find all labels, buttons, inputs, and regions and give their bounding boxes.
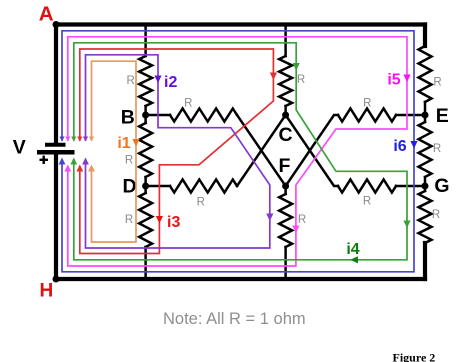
resistor R C-G	[338, 180, 396, 193]
wire resistor C-G to node G	[396, 185, 425, 188]
resistor R A-C	[279, 56, 292, 106]
resistor R B-D	[139, 123, 152, 177]
i3 arrow into battery bottom	[76, 165, 83, 172]
i2 arrow into battery top	[83, 137, 88, 142]
svg-text:R: R	[197, 197, 205, 209]
svg-text:i2: i2	[164, 74, 177, 91]
loop wire i6 (blue) battery-A-E-G-H	[62, 31, 414, 272]
resistor R F-H	[279, 194, 292, 247]
wire left edge A to battery	[54, 25, 58, 143]
loop wire i3 (red) battery-A-C-D-H	[80, 49, 274, 254]
node B junction dot	[142, 112, 149, 119]
wire diagonal node C to resistor C-G	[286, 115, 338, 186]
loop wire i2 (purple) battery-A-B-F-H	[86, 55, 270, 248]
i5 current arrow	[403, 75, 410, 83]
wire right edge top	[423, 25, 427, 47]
svg-text:R: R	[125, 214, 133, 226]
resistor R D-H	[139, 193, 152, 247]
wire resistor to node G	[424, 177, 427, 191]
node G junction dot	[422, 183, 429, 190]
svg-text:R: R	[127, 75, 135, 87]
wire top edge tap to resistor A-C	[284, 25, 287, 57]
i2 arrow into battery bottom	[82, 158, 89, 165]
resistor R E-G	[419, 122, 432, 177]
loop wire i4 (green) battery-A-C-G-H	[74, 43, 407, 260]
i1 current arrow	[132, 139, 139, 147]
wire resistor to node E	[424, 102, 427, 122]
svg-text:R: R	[298, 214, 306, 226]
i3 arrow into battery top	[77, 137, 82, 142]
svg-text:A: A	[39, 2, 54, 25]
i4 arrow beside resistor G-H	[403, 221, 410, 229]
wire node B to resistor B-F	[146, 114, 170, 117]
i3 arrow beside resistor A-C	[270, 73, 277, 81]
i2 current arrow	[154, 76, 161, 84]
resistor R D-C	[170, 180, 237, 193]
svg-text:R: R	[297, 74, 305, 86]
wire resistor to node D	[144, 177, 147, 186]
node H junction dot	[53, 276, 60, 283]
wire resistor F-E to node E	[396, 114, 425, 117]
wire resistor to node B	[144, 106, 147, 115]
svg-text:i6: i6	[393, 138, 406, 155]
wire node F to resistor F-H	[284, 186, 287, 194]
svg-text:D: D	[122, 176, 136, 198]
wire resistor F-H to bottom edge	[284, 247, 287, 279]
wire resistor D-H to bottom edge	[144, 247, 147, 279]
i1 arrow into battery top	[89, 137, 94, 142]
wire right edge bottom	[423, 243, 427, 279]
svg-text:R: R	[125, 155, 133, 167]
node E junction dot	[422, 112, 429, 119]
i4 arrow into battery bottom	[70, 158, 77, 165]
svg-text:R: R	[433, 77, 441, 89]
node D junction dot	[142, 183, 149, 190]
svg-text:H: H	[40, 280, 54, 301]
battery plus sign	[40, 156, 49, 164]
wire bottom edge H to G-corner	[56, 277, 425, 281]
wire resistor to node C	[284, 106, 287, 115]
svg-text:R: R	[184, 97, 192, 109]
svg-text:Figure 2: Figure 2	[393, 351, 436, 362]
i3 current arrow	[156, 216, 163, 224]
wire node B to resistor B-D	[144, 115, 147, 123]
wire diagonal resistor D-C to node C	[237, 115, 286, 186]
wire top edge A to E-corner	[56, 22, 425, 26]
svg-text:B: B	[121, 106, 135, 128]
i6 current arrow	[410, 141, 417, 149]
resistor R A-E	[419, 46, 432, 102]
i5 arrow into battery top	[65, 137, 70, 142]
wire diagonal resistor B-F to node F	[237, 115, 286, 186]
svg-text:R: R	[363, 98, 371, 110]
svg-text:C: C	[278, 124, 292, 146]
battery V bottom plate	[37, 150, 75, 155]
svg-text:i4: i4	[346, 241, 359, 258]
i2 arrow beside resistor F-H	[266, 214, 273, 222]
loop wire i5 (magenta) battery-A-E-F-H	[68, 37, 407, 266]
battery V top plate	[45, 143, 66, 147]
svg-text:i5: i5	[387, 72, 400, 89]
wire diagonal node F to resistor F-E	[286, 115, 338, 186]
i1 arrow into battery bottom	[88, 165, 95, 172]
loop wire i1 (orange) battery-A-B-D-H	[92, 61, 137, 242]
svg-text:i1: i1	[117, 135, 130, 152]
wire node D to resistor D-H	[144, 186, 147, 193]
i6 arrow into battery bottom	[59, 158, 66, 165]
wire battery to H	[54, 155, 58, 280]
node F junction dot	[282, 183, 289, 190]
i5 arrow mid F-H	[292, 226, 299, 234]
i4 current arrow	[350, 256, 358, 263]
wire node D to resistor D-C	[146, 185, 170, 188]
svg-text:V: V	[13, 137, 26, 159]
svg-text:i3: i3	[167, 214, 180, 231]
resistor R G-H	[419, 191, 432, 243]
svg-text:R: R	[363, 196, 371, 208]
i4 arrow beside resistor A-C	[293, 63, 300, 71]
svg-text:G: G	[434, 175, 449, 197]
i4 arrow into battery top	[71, 137, 76, 142]
svg-text:F: F	[279, 155, 291, 177]
svg-text:R: R	[432, 209, 440, 221]
i6 arrow into battery top	[59, 137, 64, 142]
node A junction dot	[53, 21, 60, 28]
resistor R A-B	[139, 56, 152, 106]
svg-text:Note: All R = 1 ohm: Note: All R = 1 ohm	[163, 310, 306, 328]
i5 arrow into battery bottom	[64, 165, 71, 172]
svg-text:R: R	[433, 143, 441, 155]
svg-text:E: E	[436, 105, 449, 127]
resistor R F-E	[338, 109, 396, 122]
resistor R B-F	[170, 109, 237, 122]
wire top edge tap to resistor A-B	[144, 25, 147, 57]
node C junction dot	[282, 112, 289, 119]
